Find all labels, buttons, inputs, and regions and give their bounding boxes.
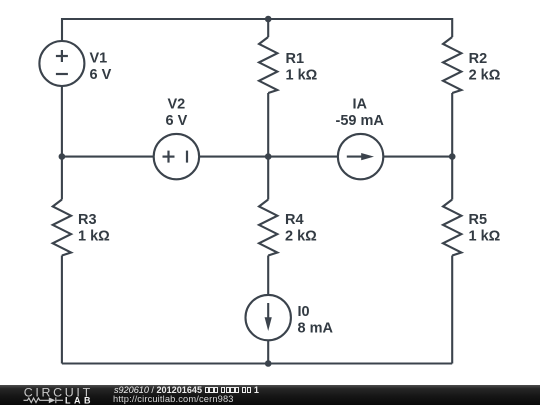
- footer text: [113, 384, 115, 386]
- arrow head I0: [265, 317, 272, 331]
- wire middle vertical R4 to I0: [267, 256, 269, 295]
- junction node mid-center: [265, 153, 272, 160]
- svg-text:6 V: 6 V: [166, 113, 188, 129]
- svg-text:R5: R5: [469, 212, 488, 228]
- wire middle vertical top to R1: [267, 19, 269, 37]
- svg-text:I0: I0: [298, 304, 310, 320]
- svg-text:1 kΩ: 1 kΩ: [469, 229, 501, 245]
- CircuitLab logo: [0, 385, 100, 405]
- svg-text:2 kΩ: 2 kΩ: [285, 229, 317, 245]
- arrow head IA: [361, 153, 374, 160]
- voltage source V1: [39, 41, 84, 86]
- junction node mid-left: [59, 153, 66, 160]
- wire middle vertical I0 to bottom: [267, 340, 269, 363]
- svg-text:1 kΩ: 1 kΩ: [286, 68, 318, 84]
- svg-text:R2: R2: [469, 51, 488, 67]
- current source I0: [246, 295, 291, 340]
- resistor R4: [259, 200, 277, 256]
- wire middle row left: [62, 156, 154, 158]
- svg-text:V1: V1: [90, 51, 108, 67]
- svg-text:R3: R3: [78, 212, 97, 228]
- wire left vertical R3 to bottom: [61, 256, 63, 364]
- wire middle row right: [383, 156, 452, 158]
- svg-text:1 kΩ: 1 kΩ: [78, 229, 110, 245]
- wire left vertical node to R3: [61, 157, 63, 200]
- wire right vertical node to R5: [451, 157, 453, 200]
- svg-text:IA: IA: [352, 97, 367, 113]
- junction node mid-right: [449, 153, 456, 160]
- footer bar: [0, 385, 540, 405]
- wire middle vertical node to R4: [267, 157, 269, 200]
- wire right vertical R5 to bottom: [451, 256, 453, 364]
- resistor R1: [259, 37, 277, 93]
- svg-text:R1: R1: [286, 51, 305, 67]
- junction node bottom: [265, 360, 272, 367]
- wire left vertical V1 to node: [61, 86, 63, 157]
- resistor R3: [53, 200, 71, 256]
- wire top horizontal: [62, 19, 452, 41]
- junction node top: [265, 16, 272, 23]
- wire right vertical R2 to node: [451, 93, 453, 157]
- wire middle row center: [199, 156, 338, 158]
- current source IA: [338, 134, 383, 179]
- resistor R2: [443, 37, 461, 93]
- resistor R5: [443, 200, 461, 256]
- svg-text:V2: V2: [168, 97, 186, 113]
- wire middle vertical R1 to node: [267, 93, 269, 157]
- svg-text:6 V: 6 V: [90, 67, 112, 83]
- svg-text:8 mA: 8 mA: [298, 321, 334, 337]
- svg-text:2 kΩ: 2 kΩ: [469, 68, 501, 84]
- svg-text:LAB: LAB: [65, 396, 94, 405]
- svg-text:R4: R4: [285, 212, 304, 228]
- voltage source V2: [154, 134, 199, 179]
- svg-text:-59 mA: -59 mA: [336, 113, 385, 129]
- wire bottom horizontal: [62, 362, 452, 364]
